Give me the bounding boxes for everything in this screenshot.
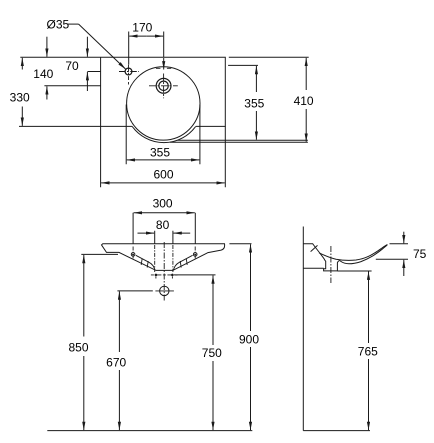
svg-text:600: 600 (153, 168, 173, 182)
dim 765 (337, 270, 371, 272)
bowl inner circle (127, 67, 200, 140)
dim 355 vertical right (178, 65, 308, 140)
svg-text:330: 330 (10, 91, 30, 105)
trap circle (160, 286, 169, 295)
svg-text:750: 750 (202, 346, 222, 360)
arrow at bowl top tangent (163, 58, 165, 70)
dim 330 (21, 58, 23, 70)
dim 70 (87, 71, 100, 73)
dim 300 (133, 213, 195, 244)
right fixing hole (193, 253, 197, 257)
ground line side (303, 430, 370, 432)
dim 80 (155, 231, 173, 244)
basin top outline rectangle (19, 57, 225, 126)
svg-text:Ø35: Ø35 (47, 18, 70, 32)
dim 600 (101, 126, 226, 187)
basin side lower curve (340, 245, 387, 264)
bowl outer front arc (132, 126, 196, 142)
ground line front (47, 430, 252, 432)
svg-text:80: 80 (156, 218, 170, 232)
bolt dots (155, 274, 158, 277)
dim 670 (117, 290, 152, 292)
front center line (163, 242, 165, 302)
svg-text:75: 75 (413, 247, 427, 261)
dim 410 (170, 57, 309, 142)
svg-text:900: 900 (239, 333, 259, 347)
svg-text:355: 355 (150, 146, 170, 160)
overflow slash (311, 245, 318, 251)
hole centerlines dashed (133, 247, 195, 259)
svg-text:670: 670 (106, 356, 126, 370)
faucet crosshair (119, 65, 139, 80)
faucet hole (125, 68, 132, 75)
left fixing hole (131, 253, 135, 257)
dim 750 (174, 274, 216, 276)
drain inner circle (159, 81, 168, 90)
svg-text:850: 850 (68, 341, 88, 355)
wall line (302, 227, 304, 431)
dim 140 (44, 85, 100, 87)
left inner slant and ribs (136, 255, 155, 270)
dim 75 (376, 244, 408, 259)
right inner slant and ribs (173, 255, 192, 270)
drain crosshair (149, 74, 178, 99)
svg-text:765: 765 (358, 345, 378, 359)
svg-text:170: 170 (132, 20, 152, 34)
basin side profile outer back and drain stub (303, 244, 340, 271)
basin side inner/upper curve (319, 245, 387, 261)
svg-text:300: 300 (153, 196, 173, 210)
svg-text:70: 70 (65, 59, 79, 73)
back bottom line (303, 267, 323, 269)
dim 355 horizontal (126, 105, 200, 165)
side center line (330, 246, 332, 283)
svg-text:355: 355 (244, 97, 264, 111)
dim 170 (129, 32, 164, 65)
bolt centerline (151, 274, 178, 276)
dim 900 (229, 243, 251, 245)
basin front outline (102, 244, 225, 271)
dim 850 (81, 253, 118, 255)
svg-text:140: 140 (33, 67, 53, 81)
drain outer circle (156, 78, 171, 93)
svg-text:410: 410 (294, 94, 314, 108)
